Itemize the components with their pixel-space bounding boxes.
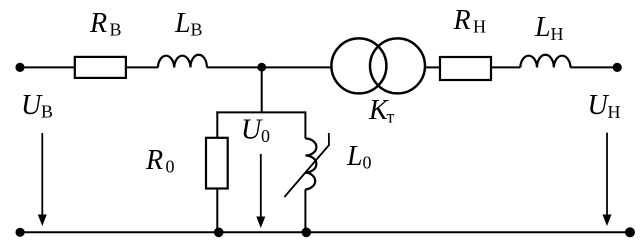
wire: R_H to L_H bbox=[491, 66, 520, 68]
voltage arrow U0 bbox=[256, 154, 265, 228]
svg-text:U: U bbox=[21, 90, 43, 121]
resistor RН bbox=[440, 57, 491, 80]
node bottom R0 bbox=[214, 228, 224, 238]
svg-text:R: R bbox=[89, 8, 107, 39]
svg-text:U: U bbox=[588, 90, 610, 121]
label RН bbox=[453, 5, 487, 37]
wire: R0 to bottom rail bbox=[216, 189, 218, 233]
voltage arrow UН bbox=[603, 133, 612, 226]
wire: bottom rail bbox=[20, 231, 630, 233]
resistor RВ bbox=[75, 57, 126, 78]
svg-text:L: L bbox=[534, 12, 551, 43]
svg-text:В: В bbox=[110, 19, 122, 39]
node bottom L0 bbox=[302, 228, 312, 238]
svg-text:0: 0 bbox=[261, 126, 270, 146]
svg-text:Н: Н bbox=[551, 24, 564, 44]
svg-text:В: В bbox=[41, 101, 53, 121]
voltage arrow UВ bbox=[38, 133, 47, 226]
wire: L_B to transformer bbox=[207, 66, 331, 68]
svg-text:0: 0 bbox=[363, 152, 372, 172]
transformer Kт bbox=[331, 38, 425, 93]
label LН bbox=[534, 12, 564, 44]
label U0 bbox=[241, 115, 270, 147]
terminal node left (input) bbox=[15, 63, 24, 72]
label L0 bbox=[346, 141, 372, 173]
wire: down to L0 bbox=[304, 111, 306, 138]
svg-text:Н: Н bbox=[473, 17, 486, 37]
label Kт bbox=[368, 95, 395, 126]
svg-text:L: L bbox=[346, 141, 363, 172]
svg-text:0: 0 bbox=[166, 156, 175, 176]
node bottom-right bbox=[625, 227, 635, 237]
svg-text:Н: Н bbox=[608, 102, 621, 122]
inductor LВ bbox=[158, 55, 207, 68]
svg-text:т: т bbox=[387, 106, 395, 126]
wire: transformer to R_H bbox=[425, 66, 440, 68]
inductor L0 (nonlinear) bbox=[305, 139, 316, 190]
wire: left terminal to R_B bbox=[20, 66, 75, 68]
label LВ bbox=[174, 8, 203, 40]
wire: down to R0 bbox=[216, 111, 218, 137]
wire: R_B to L_B bbox=[126, 66, 158, 68]
label UВ bbox=[21, 90, 53, 122]
svg-text:В: В bbox=[191, 19, 203, 39]
wire: junction down to shunt branch bbox=[261, 67, 263, 112]
label R0 bbox=[145, 145, 175, 177]
label RВ bbox=[89, 8, 122, 40]
terminal node right (output) bbox=[613, 63, 622, 72]
svg-text:L: L bbox=[174, 8, 191, 39]
wire: L0 to bottom rail bbox=[304, 189, 306, 232]
resistor R0 bbox=[206, 138, 228, 189]
svg-text:R: R bbox=[145, 145, 163, 176]
wire: shunt branch top horizontal bbox=[216, 111, 305, 113]
nonlinearity arrow of L0 bbox=[284, 133, 329, 197]
node bottom-left bbox=[16, 228, 25, 237]
label UН bbox=[588, 90, 621, 122]
svg-text:U: U bbox=[241, 115, 263, 146]
inductor LН bbox=[520, 55, 570, 68]
wire: L_H to right terminal bbox=[571, 66, 618, 68]
svg-text:R: R bbox=[453, 5, 471, 36]
node A (junction top) bbox=[257, 63, 266, 72]
